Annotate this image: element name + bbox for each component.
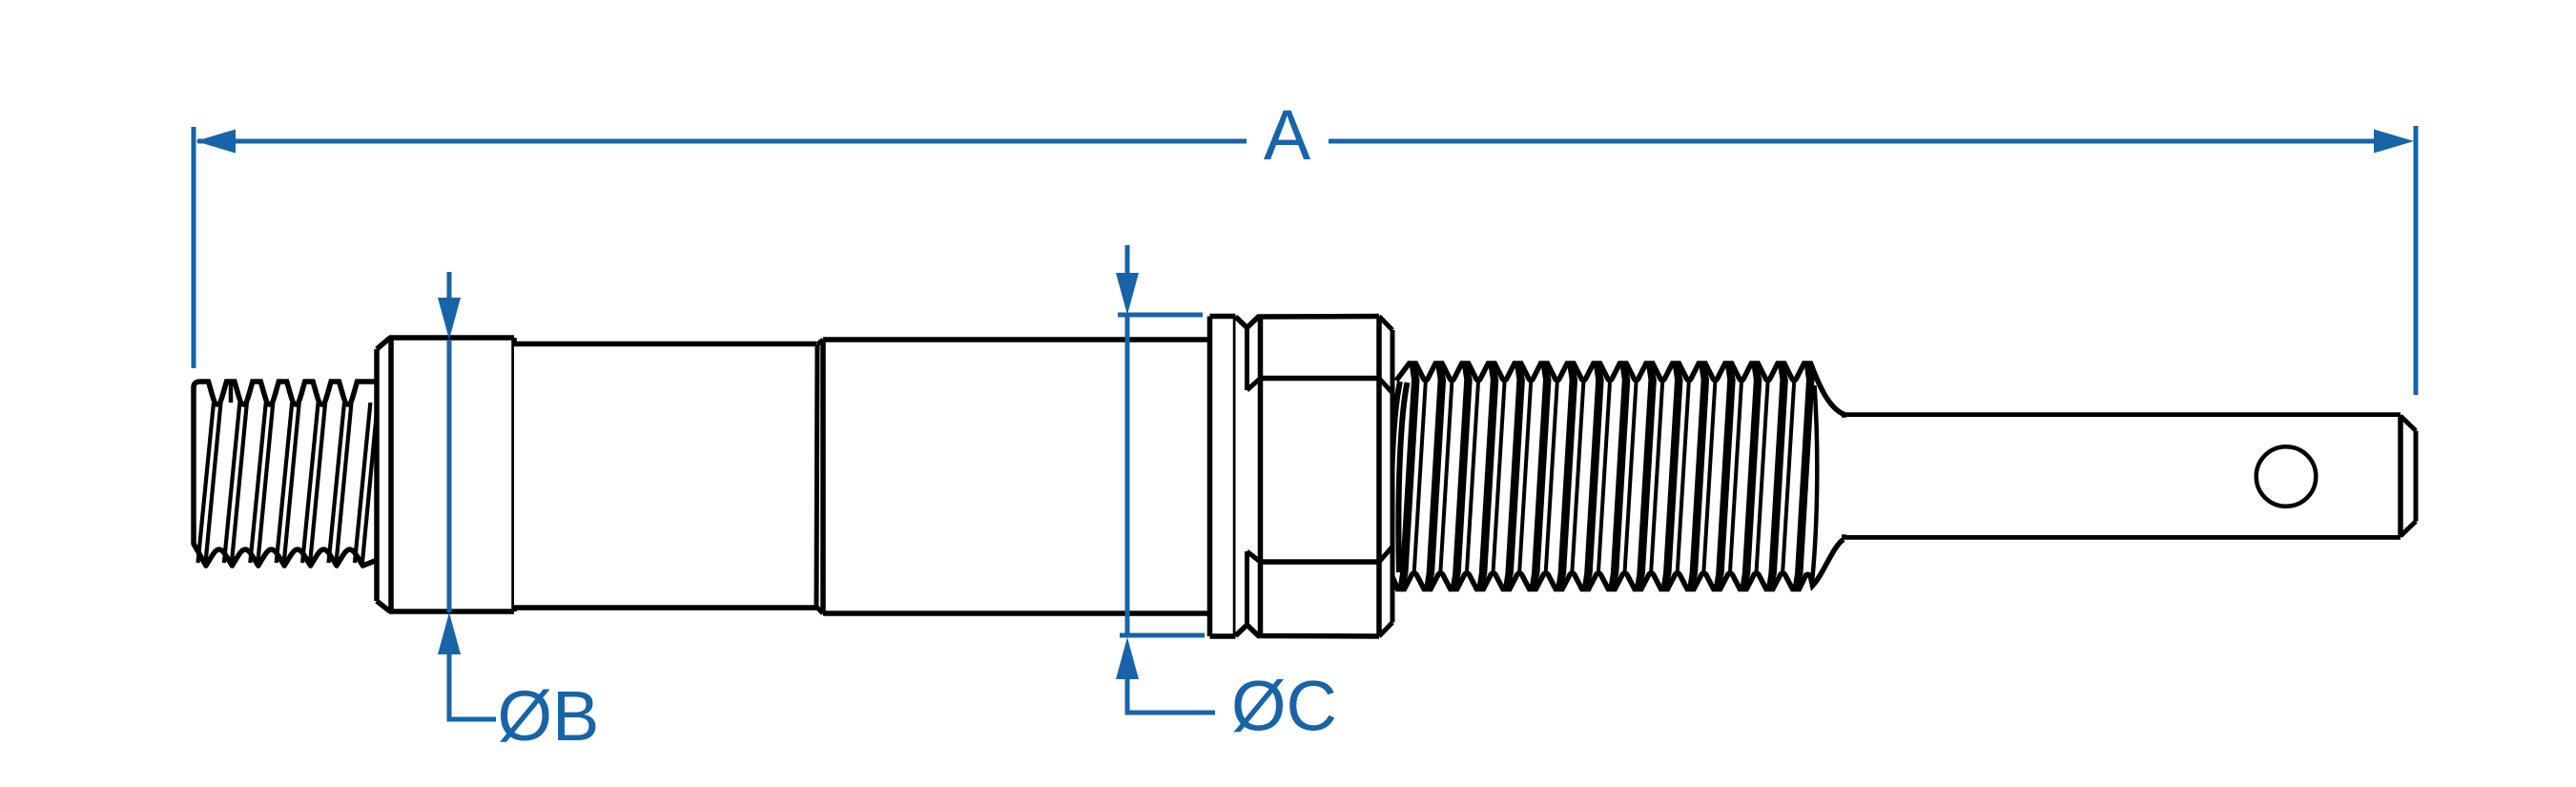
- svg-text:ØC: ØC: [1231, 667, 1337, 746]
- svg-text:ØB: ØB: [498, 676, 600, 756]
- svg-text:A: A: [1264, 95, 1311, 175]
